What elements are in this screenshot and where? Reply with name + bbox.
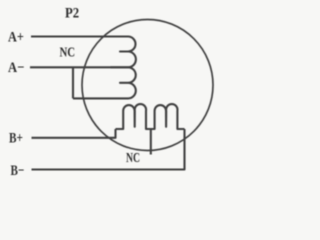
wire A+ with upper half of phase-A winding — [31, 37, 136, 68]
svg-text:NC: NC — [126, 151, 140, 166]
svg-text:B−: B− — [11, 161, 25, 178]
svg-text:P2: P2 — [65, 6, 79, 22]
phase-B winding left half — [116, 104, 149, 129]
wire B+ up to winding left end — [32, 129, 116, 138]
svg-text:A−: A− — [8, 59, 24, 75]
motor body circle — [82, 20, 213, 151]
wire A- to center tap (NC stub) — [30, 66, 111, 68]
wire B- up to winding right end — [32, 129, 185, 170]
lower half of phase-A winding — [73, 67, 136, 98]
svg-text:NC: NC — [60, 44, 76, 59]
svg-text:B+: B+ — [9, 129, 23, 146]
center tap stub of phase-B winding (NC) — [150, 129, 152, 155]
wire jog from A- down to winding bottom end — [72, 67, 74, 98]
svg-text:A+: A+ — [8, 29, 24, 45]
phase-B winding right half — [148, 104, 185, 129]
